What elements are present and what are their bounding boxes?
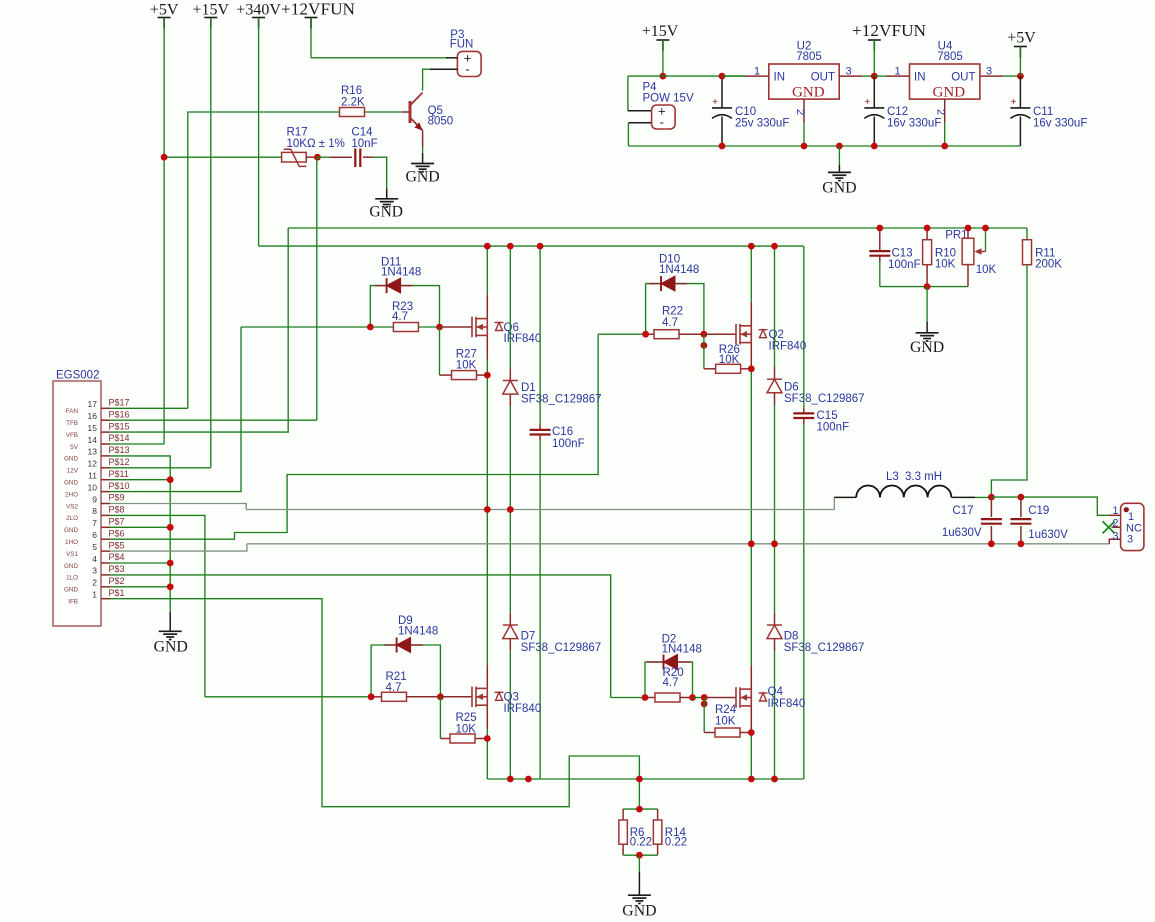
svg-text:D6: D6 bbox=[784, 382, 799, 394]
node U4 out junction bbox=[1017, 73, 1024, 80]
wire P$17 FAN bbox=[110, 407, 188, 409]
diode D1 SF38_C129867 bbox=[503, 246, 602, 406]
wire C14 to ground bbox=[373, 157, 387, 188]
resistor R17 10K 1% bbox=[282, 126, 345, 166]
svg-text:7805: 7805 bbox=[937, 51, 963, 63]
power rail +12VFUN at PSU bbox=[852, 21, 927, 76]
wire FAN net: base row and riser to P$17 bbox=[188, 112, 340, 408]
svg-text:OUT: OUT bbox=[811, 72, 835, 84]
svg-text:D7: D7 bbox=[521, 631, 536, 643]
node divider gnd bbox=[924, 283, 931, 290]
connector P3 FUN bbox=[430, 29, 481, 77]
node PR1 top bbox=[965, 225, 972, 232]
wire +340V rail bbox=[259, 245, 804, 247]
power rail +12VFUN bbox=[281, 0, 356, 58]
capacitor C12 16v 330uF bbox=[864, 76, 941, 146]
wire U2 in bbox=[722, 75, 745, 77]
node P$7 gnd bbox=[167, 524, 174, 531]
node R25 right bbox=[484, 735, 491, 742]
svg-text:VS2: VS2 bbox=[66, 503, 78, 510]
svg-text:C16: C16 bbox=[552, 426, 573, 438]
svg-text:16v 330uF: 16v 330uF bbox=[887, 118, 941, 130]
node Q4 gate bbox=[701, 694, 708, 701]
wire P$7 GND bbox=[110, 526, 170, 528]
svg-text:8050: 8050 bbox=[428, 116, 454, 128]
node +12VFUN junction bbox=[871, 73, 878, 80]
node R17/C14/TFB junction bbox=[314, 154, 321, 161]
svg-text:P$15: P$15 bbox=[109, 421, 130, 431]
resistor R20 4.7 bbox=[645, 667, 693, 702]
svg-text:1: 1 bbox=[1128, 511, 1134, 523]
node P$2 gnd bbox=[167, 583, 174, 590]
resistor R14 0.22 bbox=[653, 809, 687, 855]
svg-text:IRF840: IRF840 bbox=[768, 698, 806, 710]
svg-text:P$13: P$13 bbox=[109, 445, 130, 455]
node VS2/D1 bbox=[507, 506, 514, 513]
inductor L3 3.3 mH bbox=[834, 471, 975, 510]
svg-text:14: 14 bbox=[88, 435, 98, 445]
svg-text:GND: GND bbox=[792, 85, 825, 101]
capacitor C15 100nF bbox=[793, 246, 849, 779]
svg-text:1N4148: 1N4148 bbox=[381, 267, 421, 279]
wire gate pin Q4 bbox=[704, 697, 736, 699]
node U2 gnd bbox=[801, 143, 808, 150]
node +15V junction bbox=[660, 73, 667, 80]
wire P$1 IFB bbox=[110, 599, 639, 809]
wire gate pin Q6 bbox=[440, 326, 473, 328]
ground GND at C14 bbox=[369, 188, 403, 220]
wire Q5 emitter to ground bbox=[422, 147, 424, 153]
svg-text:C12: C12 bbox=[887, 106, 908, 118]
svg-text:P$10: P$10 bbox=[109, 481, 130, 491]
node Q4 gate tee bbox=[701, 701, 708, 708]
svg-text:P$7: P$7 bbox=[109, 517, 125, 527]
svg-text:P$6: P$6 bbox=[109, 528, 125, 538]
svg-text:C13: C13 bbox=[892, 248, 913, 260]
node R20 right bbox=[689, 694, 696, 701]
resistor R24 10K bbox=[704, 698, 751, 738]
svg-text:P$17: P$17 bbox=[109, 398, 130, 408]
wire L3 to C17 bbox=[975, 496, 991, 498]
node C13 top bbox=[876, 225, 883, 232]
node C17 top bbox=[988, 494, 995, 501]
wire R11 to output node bbox=[991, 265, 1027, 497]
svg-text:Q3: Q3 bbox=[504, 692, 519, 704]
svg-text:1: 1 bbox=[894, 66, 900, 78]
svg-text:FAN: FAN bbox=[66, 408, 79, 415]
svg-text:10nF: 10nF bbox=[351, 138, 377, 150]
svg-text:IRF840: IRF840 bbox=[504, 333, 542, 345]
svg-text:1N4148: 1N4148 bbox=[659, 264, 699, 276]
svg-text:4.7: 4.7 bbox=[662, 317, 678, 329]
svg-text:P$2: P$2 bbox=[109, 576, 125, 586]
capacitor C17 1u630V bbox=[942, 497, 1002, 544]
module EGS002 bbox=[53, 370, 130, 627]
svg-text:Q2: Q2 bbox=[769, 329, 784, 341]
svg-text:1N4148: 1N4148 bbox=[398, 626, 438, 638]
svg-text:10K: 10K bbox=[935, 258, 956, 270]
svg-text:6: 6 bbox=[92, 530, 97, 540]
svg-text:-: - bbox=[465, 62, 469, 77]
svg-text:P$8: P$8 bbox=[109, 505, 125, 515]
node VS2/Q6 source bbox=[484, 506, 491, 513]
node rail/D8 bbox=[771, 776, 778, 783]
svg-text:16v 330uF: 16v 330uF bbox=[1033, 118, 1087, 130]
svg-text:25v 330uF: 25v 330uF bbox=[735, 118, 789, 130]
svg-text:2HO: 2HO bbox=[65, 491, 78, 498]
resistor R23 4.7 bbox=[370, 301, 439, 332]
svg-text:IN: IN bbox=[774, 72, 786, 84]
node C16 top bbox=[537, 243, 544, 250]
svg-text:5: 5 bbox=[92, 542, 97, 552]
svg-text:+5V: +5V bbox=[1007, 30, 1036, 47]
wire U4 out bbox=[1003, 75, 1020, 77]
node rail/IFB bbox=[636, 776, 643, 783]
wire bridge bottom rail bbox=[487, 778, 804, 780]
diode D10 1N4148 bbox=[646, 254, 704, 335]
capacitor C19 1u630V bbox=[1010, 497, 1068, 544]
power rail +340V bbox=[236, 2, 281, 247]
svg-text:100nF: 100nF bbox=[888, 259, 921, 271]
diode D11 1N4148 bbox=[370, 257, 439, 328]
svg-text:C15: C15 bbox=[817, 410, 838, 422]
capacitor C14 10nF bbox=[330, 126, 378, 167]
wire 1HO gate row Q2 bbox=[598, 333, 646, 335]
svg-text:P$16: P$16 bbox=[109, 409, 130, 419]
node Q2 gate tee bbox=[701, 342, 708, 349]
ground GND at Q5 bbox=[405, 153, 439, 186]
wire Q6 source to Q3 drain bbox=[486, 335, 488, 360]
svg-text:+15V: +15V bbox=[642, 23, 679, 40]
svg-text:+15V: +15V bbox=[193, 2, 230, 19]
svg-text:12: 12 bbox=[88, 459, 98, 469]
svg-text:GND: GND bbox=[154, 638, 188, 655]
node rail/D7 bbox=[507, 776, 514, 783]
svg-text:11: 11 bbox=[88, 471, 97, 481]
wire D8 to bottom rail bbox=[774, 651, 776, 779]
node D6 top bbox=[771, 243, 778, 250]
svg-text:+: + bbox=[864, 97, 870, 108]
node R27 right bbox=[484, 372, 491, 379]
node C10 bottom bbox=[719, 143, 726, 150]
resistor R22 4.7 bbox=[646, 306, 704, 339]
svg-text:TFB: TFB bbox=[66, 420, 78, 427]
wire Q6 drain bbox=[486, 295, 488, 319]
svg-text:2: 2 bbox=[794, 109, 806, 115]
capacitor C11 16v 330uF bbox=[1010, 76, 1087, 146]
svg-text:10K: 10K bbox=[456, 359, 477, 371]
svg-text:GND: GND bbox=[64, 480, 78, 487]
node rail/Q4 source bbox=[748, 776, 755, 783]
node R24 right bbox=[748, 729, 755, 736]
node R23 left bbox=[367, 324, 374, 331]
transistor Q2 IRF840 bbox=[736, 324, 806, 353]
connector NC bbox=[1109, 503, 1144, 550]
node R21 left bbox=[368, 693, 375, 700]
wire R20 to gate node bbox=[693, 697, 705, 699]
resistor R6 0.22 bbox=[619, 809, 652, 855]
wire PSU top rail bbox=[628, 75, 746, 77]
node C19 bottom bbox=[1018, 540, 1025, 547]
node Q2 drain bbox=[748, 243, 755, 250]
node VS1/D6 bbox=[771, 540, 778, 547]
resistor R16 2.2K bbox=[340, 85, 410, 117]
wire VS1 row bbox=[247, 543, 1109, 545]
wire U2 gnd bbox=[803, 123, 805, 147]
wire 2HO gate row Q6 bbox=[241, 326, 370, 328]
svg-text:8: 8 bbox=[92, 506, 97, 516]
wire P$13 GND bbox=[110, 456, 170, 612]
wire R17 to C14 bbox=[317, 156, 330, 158]
svg-text:1: 1 bbox=[754, 66, 760, 78]
svg-text:3: 3 bbox=[92, 566, 97, 576]
svg-text:POW 15V: POW 15V bbox=[643, 93, 694, 105]
wire +12VFUN to P3 bbox=[311, 57, 446, 59]
svg-text:7: 7 bbox=[92, 518, 97, 528]
svg-text:10K: 10K bbox=[715, 716, 736, 728]
capacitor C13 100nF bbox=[869, 228, 920, 287]
svg-text:1u630V: 1u630V bbox=[942, 527, 982, 539]
svg-text:Q4: Q4 bbox=[768, 686, 784, 698]
transistor Q4 IRF840 bbox=[736, 686, 805, 710]
svg-text:C14: C14 bbox=[351, 126, 373, 138]
regulator U2 7805 bbox=[745, 41, 862, 123]
wire P$15 VFB bbox=[110, 228, 288, 432]
diode D9 1N4148 bbox=[371, 615, 440, 697]
node R21 right bbox=[437, 693, 444, 700]
svg-text:P$5: P$5 bbox=[109, 540, 125, 550]
svg-text:FUN: FUN bbox=[450, 39, 474, 51]
wire P$3 1LO bbox=[110, 575, 611, 698]
resistor R21 4.7 bbox=[371, 671, 440, 701]
node R10 top bbox=[924, 225, 931, 232]
wire VS2 row bbox=[246, 509, 834, 511]
node R26 right bbox=[748, 365, 755, 372]
node U4 gnd bbox=[941, 143, 948, 150]
wire P$12 12V bbox=[110, 467, 211, 469]
resistor R10 10K bbox=[923, 228, 956, 287]
svg-text:2LO: 2LO bbox=[66, 515, 78, 522]
node R23 right bbox=[436, 324, 443, 331]
svg-text:10KΩ ± 1%: 10KΩ ± 1% bbox=[287, 138, 345, 150]
node P$4 gnd bbox=[167, 560, 174, 567]
node R20 left bbox=[642, 694, 649, 701]
svg-text:9: 9 bbox=[92, 494, 97, 504]
svg-text:+12VFUN: +12VFUN bbox=[281, 0, 356, 19]
node R22 right bbox=[701, 331, 708, 338]
svg-text:R22: R22 bbox=[662, 306, 683, 318]
ground GND at EGS002 bbox=[154, 612, 188, 655]
svg-text:13: 13 bbox=[88, 447, 98, 457]
wire +5V row to R17 bbox=[164, 156, 282, 158]
node Q6 drain bbox=[484, 243, 491, 250]
wire D7 to bottom rail bbox=[509, 651, 511, 779]
wire P$11 GND bbox=[110, 479, 170, 481]
svg-text:EGS002: EGS002 bbox=[56, 370, 99, 382]
svg-text:R16: R16 bbox=[341, 85, 362, 97]
svg-text:100nF: 100nF bbox=[552, 438, 585, 450]
resistor R27 10K bbox=[440, 327, 488, 380]
svg-text:5V: 5V bbox=[70, 444, 79, 451]
node PR1 wiper bbox=[982, 225, 989, 232]
svg-text:+: + bbox=[1010, 97, 1016, 108]
wire P$5 VS1 bbox=[110, 544, 247, 551]
svg-text:+340V: +340V bbox=[236, 2, 281, 19]
svg-text:SF38_C129867: SF38_C129867 bbox=[521, 642, 602, 654]
diode D7 SF38_C129867 bbox=[503, 613, 601, 654]
resistor R25 10K bbox=[440, 697, 487, 743]
svg-text:GND: GND bbox=[64, 563, 78, 570]
node rail joint bbox=[525, 776, 532, 783]
svg-text:L3: L3 bbox=[886, 471, 899, 483]
capacitor C16 100nF bbox=[530, 246, 585, 779]
svg-text:12V: 12V bbox=[67, 468, 79, 475]
svg-text:C10: C10 bbox=[735, 106, 756, 118]
svg-text:2.2K: 2.2K bbox=[341, 97, 365, 109]
svg-text:3: 3 bbox=[986, 66, 992, 78]
wire Q2 source to Q4 drain bbox=[750, 343, 752, 369]
connector P4 POW 15V bbox=[628, 76, 694, 146]
svg-text:7805: 7805 bbox=[796, 51, 822, 63]
svg-text:P$11: P$11 bbox=[109, 469, 129, 479]
svg-text:1N4148: 1N4148 bbox=[662, 644, 702, 656]
node C19 top bbox=[1018, 494, 1025, 501]
potentiometer PR1 10K bbox=[945, 228, 996, 287]
wire Q3 source to rail bbox=[486, 705, 488, 729]
node C10 top bbox=[719, 73, 726, 80]
svg-text:GND: GND bbox=[405, 169, 439, 186]
wire Q2 drain bbox=[750, 302, 752, 326]
svg-text:R24: R24 bbox=[715, 704, 737, 716]
wire 1LO gate row Q4 bbox=[611, 697, 645, 699]
svg-text:GND: GND bbox=[64, 456, 78, 463]
transistor Q6 IRF840 bbox=[472, 317, 541, 345]
svg-text:+: + bbox=[712, 97, 718, 108]
svg-text:+5V: +5V bbox=[150, 2, 179, 19]
svg-text:10K: 10K bbox=[976, 264, 997, 276]
node shunt bottom bbox=[636, 852, 643, 859]
diode D2 1N4148 bbox=[645, 634, 702, 698]
wire U2 out bbox=[863, 75, 875, 77]
svg-text:SF38_C129867: SF38_C129867 bbox=[521, 393, 602, 405]
wire P$16 TFB bbox=[110, 419, 317, 421]
node VS1/Q2 source bbox=[748, 540, 755, 547]
svg-text:GND: GND bbox=[822, 180, 856, 197]
wire D1 to D7 bbox=[509, 406, 511, 613]
wire PSU ground rail bbox=[628, 145, 1020, 147]
svg-text:4.7: 4.7 bbox=[663, 677, 679, 689]
svg-text:OUT: OUT bbox=[951, 72, 975, 84]
svg-text:0.22: 0.22 bbox=[630, 837, 652, 849]
power rail +15V at PSU bbox=[642, 23, 679, 76]
svg-text:GND: GND bbox=[622, 903, 656, 920]
wire U4 in bbox=[874, 75, 886, 77]
svg-text:200K: 200K bbox=[1035, 258, 1062, 270]
wire divider bottom rail bbox=[880, 286, 968, 288]
svg-text:P$1: P$1 bbox=[109, 588, 125, 598]
no-connect X at NC pin 2 bbox=[1103, 521, 1115, 533]
svg-text:SF38_C129867: SF38_C129867 bbox=[784, 393, 865, 405]
svg-text:1: 1 bbox=[92, 590, 97, 600]
node C12 bottom bbox=[871, 143, 878, 150]
diode D8 SF38_C129867 bbox=[767, 613, 864, 654]
ground GND at shunt bbox=[622, 855, 656, 919]
svg-text:GND: GND bbox=[910, 339, 944, 356]
svg-text:GND: GND bbox=[64, 527, 78, 534]
wire P$14 5V bbox=[110, 443, 164, 445]
resistor R26 10K bbox=[704, 334, 751, 373]
svg-text:100nF: 100nF bbox=[817, 422, 850, 434]
svg-text:VFB: VFB bbox=[66, 432, 78, 439]
power rail +5V at PSU bbox=[1007, 30, 1036, 77]
svg-text:SF38_C129867: SF38_C129867 bbox=[784, 642, 865, 654]
svg-text:4: 4 bbox=[92, 554, 97, 564]
svg-text:0.22: 0.22 bbox=[665, 837, 687, 849]
svg-text:15: 15 bbox=[88, 423, 98, 433]
svg-text:VS1: VS1 bbox=[66, 551, 78, 558]
svg-text:C11: C11 bbox=[1033, 106, 1053, 118]
svg-text:2: 2 bbox=[92, 578, 97, 588]
power rail +15V bbox=[193, 2, 230, 468]
svg-text:P$14: P$14 bbox=[109, 433, 130, 443]
node R22 left bbox=[642, 331, 649, 338]
svg-text:1LO: 1LO bbox=[66, 575, 78, 582]
svg-text:+12VFUN: +12VFUN bbox=[852, 21, 927, 40]
svg-text:C19: C19 bbox=[1028, 505, 1049, 517]
svg-text:R17: R17 bbox=[287, 126, 308, 138]
svg-text:10: 10 bbox=[88, 482, 98, 492]
wire P$2 GND bbox=[110, 586, 170, 588]
svg-text:IFB: IFB bbox=[68, 599, 78, 606]
svg-text:R25: R25 bbox=[456, 712, 477, 724]
transistor Q3 IRF840 bbox=[472, 687, 541, 716]
svg-text:C17: C17 bbox=[952, 505, 973, 517]
ground GND at PSU bbox=[822, 143, 856, 197]
wire TFB riser P$16 bbox=[316, 157, 318, 420]
wire P$9 VS2 bbox=[110, 504, 246, 510]
svg-text:P$9: P$9 bbox=[109, 493, 125, 503]
diode D6 SF38_C129867 bbox=[767, 246, 865, 405]
wire Q4 source to rail bbox=[750, 706, 752, 730]
svg-text:16: 16 bbox=[88, 411, 98, 421]
ground GND at divider bbox=[910, 287, 944, 356]
wire gate pin Q2 bbox=[704, 333, 736, 335]
wire output top row bbox=[991, 497, 1109, 515]
svg-text:1: 1 bbox=[1112, 505, 1118, 517]
svg-text:GND: GND bbox=[369, 204, 403, 221]
svg-text:17: 17 bbox=[88, 399, 98, 409]
svg-text:3: 3 bbox=[1127, 534, 1133, 546]
svg-text:3.3 mH: 3.3 mH bbox=[905, 471, 942, 483]
wire 2LO gate row Q3 bbox=[205, 696, 371, 698]
wire U4 gnd bbox=[944, 123, 946, 147]
svg-text:P$4: P$4 bbox=[109, 552, 125, 562]
wire shunt bottom rail bbox=[623, 854, 658, 856]
svg-text:GND: GND bbox=[933, 85, 966, 101]
wire P$8 2LO bbox=[110, 515, 205, 696]
svg-text:P$12: P$12 bbox=[109, 457, 130, 467]
node C17 bottom bbox=[988, 540, 995, 547]
svg-text:IN: IN bbox=[914, 72, 926, 84]
node +5V/R17 junction bbox=[161, 154, 168, 161]
capacitor C10 25v 330uF bbox=[712, 76, 789, 146]
wire P$6 1HO bbox=[110, 334, 598, 539]
svg-text:4.7: 4.7 bbox=[392, 311, 408, 323]
svg-text:P$3: P$3 bbox=[109, 564, 125, 574]
node shunt top bbox=[636, 806, 643, 813]
power rail +5V bbox=[150, 2, 179, 445]
wire gate pin Q3 bbox=[440, 696, 472, 698]
